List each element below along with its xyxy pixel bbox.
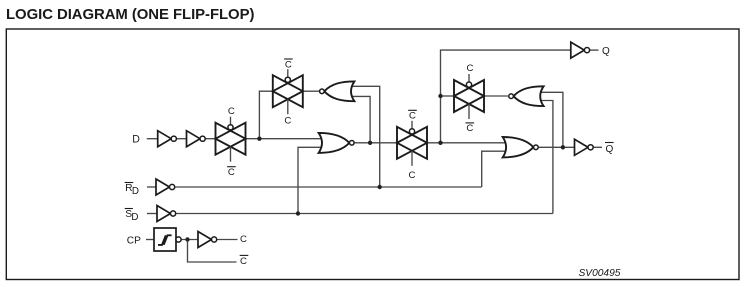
wire TG2 input from G2 output xyxy=(302,90,320,92)
schmitt trigger box xyxy=(154,228,181,251)
wire TG4 input from G4 output xyxy=(485,95,508,97)
junction reset line to G2 xyxy=(378,185,382,189)
svg-text:C: C xyxy=(228,106,235,117)
wire G2 top input from reset line xyxy=(350,86,380,187)
transmission gate TG1 xyxy=(216,117,246,162)
wire set line xyxy=(176,213,553,215)
wire G2 bottom input from node B xyxy=(350,96,370,142)
label C-bar clock xyxy=(240,255,249,267)
transmission gate TG4 xyxy=(454,74,484,119)
wire U5 output to C label xyxy=(217,239,238,241)
junction clock node xyxy=(185,237,189,241)
wire TG4 left to node C vertical xyxy=(441,95,455,97)
junction node A xyxy=(257,137,261,141)
label C-bar below TG4 xyxy=(466,123,475,134)
label CP input xyxy=(127,236,141,247)
label C-bar above TG2 xyxy=(284,59,293,70)
wire Q-bar output dash xyxy=(593,146,602,148)
label Q-bar output xyxy=(605,143,614,155)
label SD input xyxy=(125,209,139,224)
wire node C vertical up to Q xyxy=(441,50,571,143)
wire CP input to schmitt box xyxy=(146,239,154,241)
wire schmitt output to inverter U5 xyxy=(181,239,198,241)
svg-text:C: C xyxy=(409,170,416,181)
wire C-bar branch xyxy=(188,240,237,263)
svg-text:C: C xyxy=(467,63,474,74)
svg-text:CP: CP xyxy=(127,236,141,247)
NOR gate G2 (left facing) xyxy=(320,81,355,101)
wire G4 bottom input from set line xyxy=(540,101,553,214)
wire node D: G3 output to inverter U7 xyxy=(538,146,574,148)
wire RD input to inverter U3 xyxy=(147,186,156,188)
label C above TG4 xyxy=(467,63,474,74)
wire node C: TG3 output to NOR G3 top input xyxy=(427,142,508,144)
NOR gate G4 (left facing) xyxy=(509,86,544,106)
transmission gate TG2 xyxy=(273,69,303,114)
svg-text:C: C xyxy=(284,116,291,127)
svg-text:C: C xyxy=(228,167,235,178)
svg-text:C: C xyxy=(466,123,473,134)
svg-text:Q: Q xyxy=(606,144,614,155)
junction node C at TG3 output xyxy=(438,141,442,145)
label RD input xyxy=(125,183,139,197)
inverter U3 (RD) xyxy=(156,179,175,195)
label C below TG3 xyxy=(409,170,416,181)
wire node B: G1 output to TG3 xyxy=(354,142,397,144)
svg-text:D: D xyxy=(132,134,140,146)
NOR gate G3 xyxy=(503,137,539,157)
inverter U4 (SD) xyxy=(157,206,176,222)
inverter U1 xyxy=(158,131,177,147)
wire G3 bottom input from reset line xyxy=(482,151,508,187)
svg-text:C: C xyxy=(285,59,292,70)
svg-text:SV00495: SV00495 xyxy=(579,268,621,279)
inverter U6 (Q) xyxy=(571,42,590,58)
label C-bar above TG3 xyxy=(408,110,417,121)
wire G4 top input from node D xyxy=(540,92,563,147)
label C below TG2 xyxy=(284,116,291,127)
wire reset line xyxy=(175,186,482,188)
svg-text:C: C xyxy=(240,234,247,245)
wire U2 to TG1 xyxy=(205,138,215,140)
NOR gate G1 xyxy=(319,133,355,153)
label Q output xyxy=(602,46,610,57)
inverter U5 (clock) xyxy=(198,232,217,248)
junction node C at TG4 xyxy=(438,94,442,98)
wire node A: TG1 output to NOR G1 top input xyxy=(246,138,324,140)
junction node B xyxy=(368,141,372,145)
wire TG2 output left xyxy=(259,91,272,139)
svg-text:LOGIC DIAGRAM (ONE FLIP-FLOP): LOGIC DIAGRAM (ONE FLIP-FLOP) xyxy=(6,7,254,23)
junction node D to G4 xyxy=(561,145,565,149)
wire Q output dash xyxy=(590,49,599,51)
svg-text:D: D xyxy=(132,186,139,197)
wire G1 bottom input from set line xyxy=(298,147,323,213)
wire D to inverter U1 xyxy=(147,138,158,140)
junction set line to G1 xyxy=(296,211,300,215)
inverter U2 xyxy=(187,131,206,147)
label C-bar below TG1 xyxy=(227,167,236,178)
transmission gate TG3 xyxy=(397,121,427,166)
svg-text:C: C xyxy=(240,256,247,267)
svg-text:C: C xyxy=(409,111,416,122)
inverter U7 (Q-bar) xyxy=(575,139,594,155)
svg-text:Q: Q xyxy=(602,46,610,57)
wire SD input to inverter U4 xyxy=(147,213,157,215)
label C clock xyxy=(240,234,247,245)
label C above TG1 xyxy=(228,106,235,117)
wire U1 to U2 xyxy=(176,138,186,140)
node D input label xyxy=(132,134,140,146)
svg-text:D: D xyxy=(131,212,138,223)
